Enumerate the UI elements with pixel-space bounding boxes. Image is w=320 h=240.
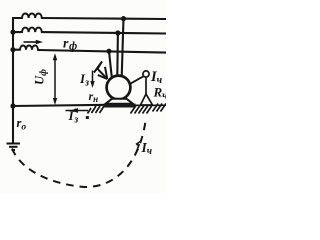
svg-text:Rч: Rч <box>153 85 167 102</box>
svg-text:Iч: Iч <box>141 140 153 157</box>
svg-text:ro: ro <box>17 116 27 133</box>
svg-text:rн: rн <box>89 89 99 104</box>
svg-text:Iз: Iз <box>79 71 89 89</box>
svg-text:Uф: Uф <box>33 69 50 85</box>
svg-text:Iч: Iч <box>150 69 163 86</box>
svg-text:rф: rф <box>63 37 77 53</box>
